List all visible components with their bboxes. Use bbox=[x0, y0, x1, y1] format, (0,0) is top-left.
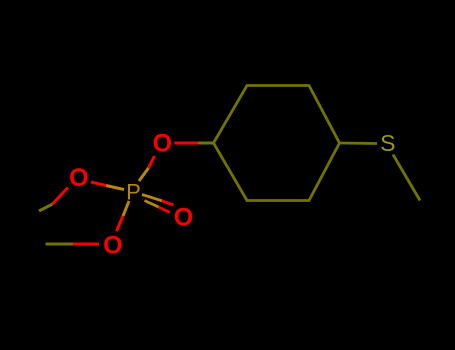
wire: P=O double bond line B red half bbox=[159, 207, 171, 213]
wire: P-O(bottom) bond red half bbox=[117, 216, 124, 231]
wire: P-O(left) bond red half bbox=[91, 182, 106, 186]
svg-text:O: O bbox=[69, 164, 88, 192]
wire: P-O(left) bond phosphorus half bbox=[106, 186, 124, 190]
svg-text:S: S bbox=[380, 130, 395, 156]
wire: O(aryl)-P bond red half bbox=[149, 156, 155, 168]
wire: O(aryl)-C1 bond red half bbox=[175, 142, 199, 145]
wire: O(aryl)-C1 bond carbon half bbox=[198, 142, 214, 145]
svg-text:O: O bbox=[103, 232, 122, 260]
wire: P=O double bond line A red half bbox=[162, 201, 174, 205]
svg-text:O: O bbox=[153, 130, 172, 158]
svg-text:O: O bbox=[174, 204, 193, 232]
wire: S-CH3 bond bbox=[393, 155, 420, 201]
wire: O(aryl)-P bond phosphorus half bbox=[139, 168, 149, 181]
benzene ring C1-C6 bbox=[214, 86, 340, 201]
wire: O(left)-CH3 bond carbon half bbox=[39, 204, 53, 211]
wire: C4-S bond bbox=[340, 142, 378, 145]
wire: P=O double bond line A phosphorus half bbox=[142, 195, 162, 201]
wire: O(bottom)-CH3 bond carbon half bbox=[46, 243, 74, 246]
wire: P-O(bottom) bond phosphorus half bbox=[123, 201, 129, 216]
wire: O(left)-CH3 bond red half bbox=[53, 188, 69, 205]
wire: P=O double bond line B phosphorus half bbox=[145, 201, 159, 208]
wire: O(bottom)-CH3 bond red half bbox=[73, 243, 99, 246]
